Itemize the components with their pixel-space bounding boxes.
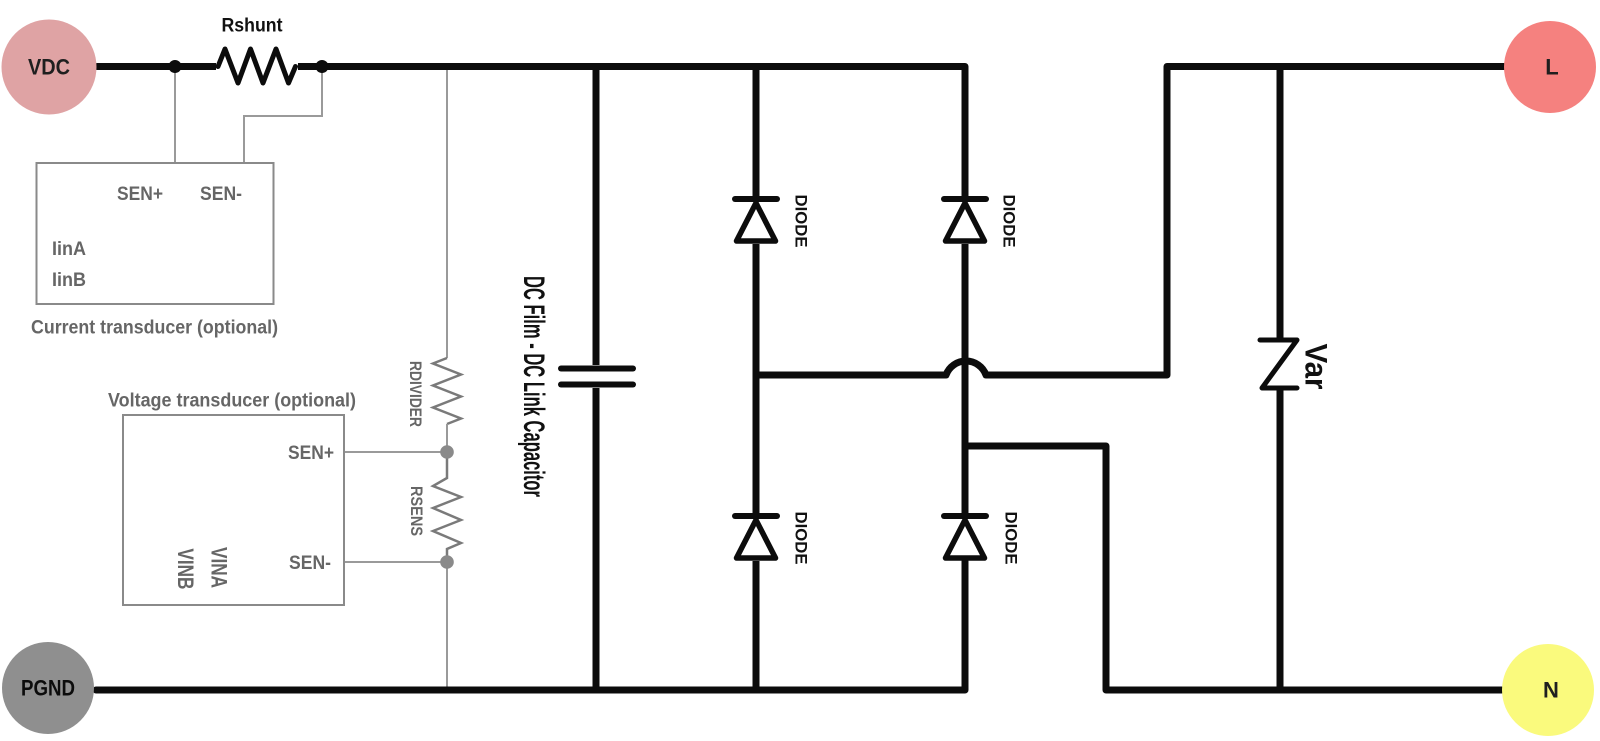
wire: RDIVIDER to node C [446, 424, 448, 452]
svg-text:DC Film - DC Link Capacitor: DC Film - DC Link Capacitor [517, 276, 550, 497]
svg-text:RDIVIDER: RDIVIDER [406, 361, 425, 427]
svg-text:IinB: IinB [52, 269, 86, 291]
svg-text:RSENS: RSENS [407, 486, 426, 536]
diode D1 triangle [737, 203, 776, 241]
svg-text:Current transducer (optional): Current transducer (optional) [31, 318, 278, 339]
wire: diode leg 2 from upper D2 anode down through hop to lower D4 [962, 244, 969, 513]
svg-text:VINB: VINB [172, 548, 197, 589]
svg-text:Var: Var [1299, 344, 1335, 390]
svg-text:VDC: VDC [28, 55, 70, 80]
terminal L [1504, 21, 1596, 113]
wire: varistor branch lower stem [1277, 390, 1284, 690]
svg-text:DIODE: DIODE [1002, 512, 1021, 565]
diode D1 (upper left) cathode bar [735, 196, 777, 202]
wire: gray SEN+ sense wire from node A to current transducer [174, 67, 176, 163]
resistor RDIVIDER [433, 358, 461, 424]
capacitor C1 DC Film - DC Link Capacitor plates [561, 366, 633, 372]
wire: diode leg 1 from top rail to upper diode D1 [753, 67, 760, 197]
diode D3 triangle [737, 520, 776, 558]
svg-text:SEN+: SEN+ [117, 183, 163, 205]
varistor Var symbol [1260, 340, 1297, 388]
node B junction dot [316, 60, 329, 73]
node A junction dot [169, 60, 182, 73]
svg-text:SEN-: SEN- [200, 183, 242, 205]
wire: top rail from VDC to diode leg 2 corner, down to upper diode D2 [97, 67, 965, 197]
resistor RSENS [433, 452, 461, 562]
wire: N branch from leg2 at 446 right and down to bottom-right rail to N [965, 446, 1502, 690]
wire: between D1 and D3 [753, 244, 760, 513]
svg-text:VINA: VINA [206, 547, 231, 588]
svg-text:N: N [1543, 678, 1559, 703]
wire: DC link capacitor branch lower stem [593, 388, 600, 690]
svg-text:L: L [1545, 55, 1558, 80]
svg-text:DIODE: DIODE [792, 195, 811, 248]
terminal PGND [2, 642, 94, 734]
diode D4 (lower right) cathode bar [944, 513, 986, 519]
wire: voltage transducer SEN+ to node C [344, 451, 447, 453]
voltage transducer box [123, 415, 344, 605]
node D junction dot (gray) [440, 555, 454, 569]
node C junction dot (gray) [440, 445, 454, 459]
diode D2 triangle [946, 203, 985, 241]
wire: gray SEN- sense wire from node B to current transducer [244, 70, 322, 163]
wire: DC link capacitor branch upper stem [593, 67, 600, 366]
svg-text:PGND: PGND [21, 676, 75, 701]
svg-text:DIODE: DIODE [1000, 195, 1019, 248]
terminal VDC [2, 20, 97, 115]
svg-text:Rshunt: Rshunt [222, 16, 284, 37]
diode D4 triangle [946, 520, 985, 558]
diode D2 (upper right) cathode bar [944, 196, 986, 202]
wire: voltage transducer SEN- to node D [344, 561, 447, 563]
svg-text:Voltage transducer (optional): Voltage transducer (optional) [108, 391, 356, 412]
terminal N [1502, 644, 1594, 736]
wire: D4 anode down to bottom-left rail corner, bottom rail to PGND [96, 561, 965, 690]
svg-text:IinA: IinA [52, 238, 86, 260]
diode D3 (lower left) cathode bar [735, 513, 777, 519]
svg-text:SEN+: SEN+ [288, 442, 334, 464]
wire: gray divider wire from top rail down to RDIVIDER [446, 67, 448, 358]
current transducer box [37, 163, 274, 304]
svg-text:DIODE: DIODE [792, 512, 811, 565]
resistor Rshunt zigzag [216, 62, 298, 71]
wire: node D down to bottom rail [446, 562, 448, 690]
wire: mid rail from leg1 with hop over leg2, up right side, top rail to L [756, 67, 1504, 376]
wire: varistor branch upper stem [1277, 67, 1284, 341]
wire: D3 anode down to bottom rail [753, 561, 760, 690]
svg-text:SEN-: SEN- [289, 552, 331, 574]
